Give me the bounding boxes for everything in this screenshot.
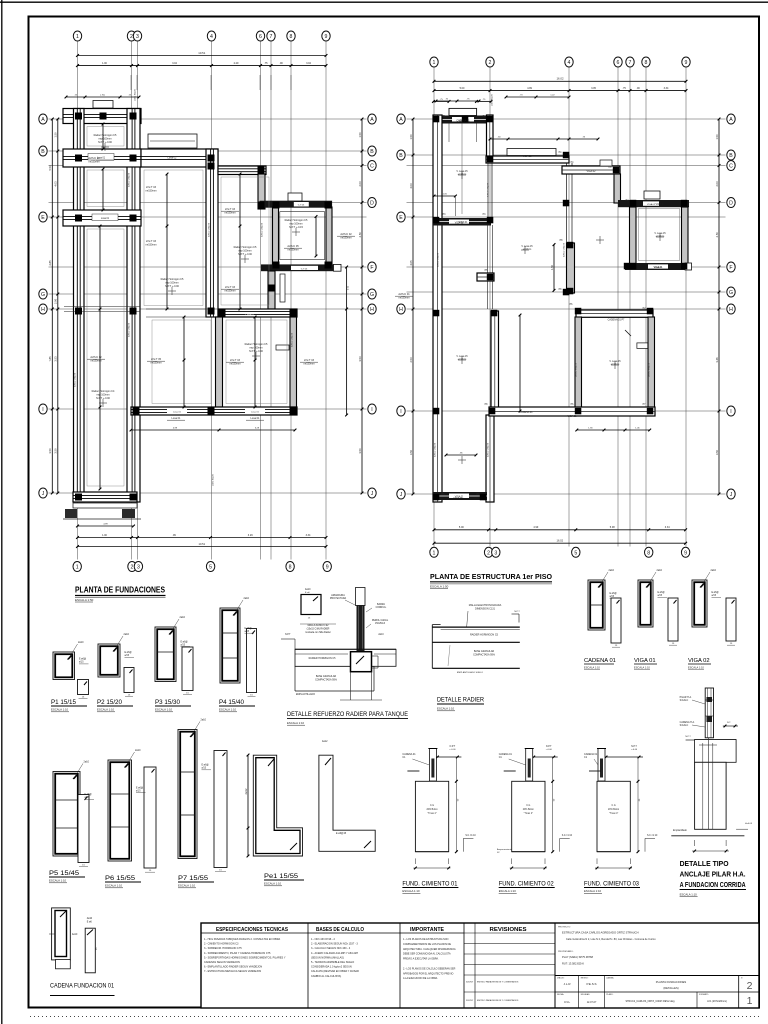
left plan wing J bottom band <box>73 492 137 502</box>
left plan D-room inner rect <box>280 212 325 260</box>
detalle tanque anchor block <box>351 652 372 672</box>
svg-text:3.34: 3.34 <box>665 526 670 529</box>
svg-text:1: 1 <box>433 550 436 556</box>
svg-text:CADENAS SEGUN VANDEJON: CADENAS SEGUN VANDEJON <box>204 961 240 964</box>
svg-text:ne150mm: ne150mm <box>287 248 298 251</box>
svg-text:PREVIO A EJECUTAR LA OBRA.: PREVIO A EJECUTAR LA OBRA. <box>403 958 439 961</box>
left plan extra leader marks top <box>130 75 132 90</box>
svg-text:4.- ACERO CALIDAD A44-28H Y A6: 4.- ACERO CALIDAD A44-28H Y A63-42H <box>311 952 358 955</box>
left plan dim chain below I band <box>131 429 295 431</box>
svg-text:a/15: a/15 <box>658 595 663 597</box>
svg-text:S.C.=1:10: S.C.=1:10 <box>562 835 573 837</box>
left plan F-H connector wall <box>268 271 275 309</box>
svg-text:a/15: a/15 <box>245 631 250 633</box>
svg-text:ESCALA 1:10: ESCALA 1:10 <box>634 666 650 670</box>
svg-text:N.P.T: N.P.T <box>514 611 520 613</box>
svg-text:ESCALA 1:10: ESCALA 1:10 <box>49 879 67 883</box>
Pe1 dim marks <box>247 755 249 856</box>
right plan left wall strip <box>433 115 442 502</box>
svg-text:1.50: 1.50 <box>409 134 413 140</box>
left plan H band <box>218 309 297 317</box>
left plan NPT cross markers <box>101 146 109 148</box>
svg-text:DETALLE REFUERZO RADIER PARA T: DETALLE REFUERZO RADIER PARA TANQUE <box>287 711 408 718</box>
svg-text:DIMENSION C131: DIMENSION C131 <box>475 608 496 611</box>
right plan wing internal dim <box>434 195 455 197</box>
title block bottom rows <box>555 975 759 977</box>
svg-text:APROBADOS POR EL ARQUITECTO PR: APROBADOS POR EL ARQUITECTO PREVIO <box>403 972 453 975</box>
svg-text:PROYECTO:: PROYECTO: <box>558 927 571 929</box>
detail P2 15/20 <box>98 644 120 677</box>
svg-text:2: 2 <box>489 60 492 66</box>
svg-text:3: 3 <box>494 550 497 556</box>
left plan wing B/C band <box>63 149 141 167</box>
svg-text:.75: .75 <box>264 62 268 65</box>
svg-text:VIGA 02: VIGA 02 <box>656 203 666 206</box>
svg-text:2ø10: 2ø10 <box>84 761 90 764</box>
svg-text:N.P.T +-0.00: N.P.T +-0.00 <box>249 350 263 353</box>
svg-text:9: 9 <box>326 565 329 571</box>
svg-text:5xMc2 o8@20: 5xMc2 o8@20 <box>435 442 437 457</box>
svg-text:1: 1 <box>76 565 79 571</box>
detalle anclaje baseline <box>671 835 744 837</box>
svg-text:2ø10: 2ø10 <box>201 719 207 722</box>
svg-text:e=10cm: e=10cm <box>523 248 532 251</box>
svg-text:ne150mm: ne150mm <box>88 160 99 163</box>
svg-text:E ø6@: E ø6@ <box>79 659 87 661</box>
right plan grid horizontal lines <box>407 118 726 120</box>
svg-text:2.50: 2.50 <box>358 232 362 238</box>
detail FUND. CIMIENTO 02 <box>531 756 558 758</box>
svg-text:LAMINA:: LAMINA: <box>606 977 614 980</box>
svg-text:5.08: 5.08 <box>610 526 615 529</box>
svg-text:I: I <box>400 409 401 415</box>
right plan grid4 wall thick lower <box>567 243 575 293</box>
svg-text:C: C <box>729 164 733 170</box>
svg-text:P5 15/45: P5 15/45 <box>49 870 79 877</box>
svg-text:BASES DE CALCULO: BASES DE CALCULO <box>316 927 364 933</box>
svg-text:3.- CALCULO SEGUN NCh 430 - 4: 3.- CALCULO SEGUN NCh 430 - 4 <box>311 947 351 950</box>
svg-text:e=10cm: e=10cm <box>611 363 620 366</box>
svg-text:5xMc2 o8@20: 5xMc2 o8@20 <box>75 372 77 387</box>
svg-text:ESCALA 1:10: ESCALA 1:10 <box>51 708 69 712</box>
right plan small rect above C band <box>600 160 612 166</box>
svg-text:VIGA 01: VIGA 01 <box>634 658 656 664</box>
right plan wing right wall H-I <box>491 311 499 414</box>
svg-text:a/15: a/15 <box>712 595 717 597</box>
right plan B bridge band <box>486 156 569 163</box>
svg-text:ESCALA 1:10: ESCALA 1:10 <box>287 721 305 725</box>
svg-text:3: 3 <box>136 34 139 40</box>
left plan grid horizontal lines <box>49 118 367 120</box>
svg-text:N.P.T +-0.00: N.P.T +-0.00 <box>98 141 112 144</box>
svg-text:9: 9 <box>684 550 687 556</box>
svg-text:Calle Golondrina N 2, Lote N 2: Calle Golondrina N 2, Lote N 2, Renda Pc… <box>566 938 656 941</box>
svg-text:31/07/07: 31/07/07 <box>466 1000 473 1002</box>
svg-text:1.50: 1.50 <box>715 134 719 140</box>
svg-text:3.53: 3.53 <box>358 356 362 362</box>
title block header dividers <box>201 932 464 934</box>
detail P6 15/55 <box>108 760 132 861</box>
svg-text:3.34: 3.34 <box>306 534 311 537</box>
left plan wing internal chain <box>99 226 101 489</box>
detail VIGA 02 <box>692 580 707 627</box>
svg-text:DEBE SER COMUNICADA AL CALCULI: DEBE SER COMUNICADA AL CALCULISTA <box>403 953 451 956</box>
svg-text:P7 15/55: P7 15/55 <box>178 875 208 882</box>
left plan grid bubbles bottom <box>73 562 81 572</box>
svg-text:E ø6@: E ø6@ <box>658 592 666 594</box>
svg-text:1.00: 1.00 <box>102 62 107 65</box>
svg-text:2xMc 8@20: 2xMc 8@20 <box>492 93 494 105</box>
right plan porch rect above A band <box>449 108 477 115</box>
svg-text:ESCALA 1:10: ESCALA 1:10 <box>178 884 196 888</box>
svg-text:Losa 01: Losa 01 <box>172 417 182 420</box>
detail P5 15/45 <box>53 772 80 857</box>
svg-text:B: B <box>370 149 374 155</box>
svg-text:PLANTA FUNDACIONES: PLANTA FUNDACIONES <box>656 980 687 984</box>
svg-text:N.T.: N.T. <box>727 722 731 724</box>
left plan wing band text boxes <box>88 154 114 161</box>
svg-text:PLANTA DE FUNDACIONES: PLANTA DE FUNDACIONES <box>75 586 165 595</box>
svg-text:7: 7 <box>629 60 632 66</box>
svg-text:G: G <box>370 292 374 298</box>
svg-text:CAMBIO AL CALCULISTA): CAMBIO AL CALCULISTA) <box>311 975 341 978</box>
left plan niche rect <box>276 345 289 350</box>
svg-text:COMPACTADA 95%: COMPACTADA 95% <box>473 653 496 656</box>
svg-text:5.00: 5.00 <box>459 526 464 529</box>
svg-text:S.C.=1:10: S.C.=1:10 <box>647 835 658 837</box>
svg-text:ne150mm: ne150mm <box>398 296 409 299</box>
svg-text:+-0.00: +-0.00 <box>546 749 553 751</box>
right plan C-D corner wall <box>614 174 621 203</box>
svg-text:Losa 01: Losa 01 <box>101 218 110 220</box>
svg-text:E ø6@: E ø6@ <box>136 787 144 789</box>
svg-text:A=1 (297x420mm): A=1 (297x420mm) <box>707 1000 727 1003</box>
svg-text:J: J <box>371 491 374 497</box>
svg-text:ARQUITECTURA. CUALQUIER DISCRE: ARQUITECTURA. CUALQUIER DISCREPANCIA <box>403 948 456 951</box>
right plan right room left wall <box>630 207 637 268</box>
right plan A top band <box>433 116 491 124</box>
svg-text:1.50: 1.50 <box>550 264 554 270</box>
right plan niche on right wall <box>637 343 648 349</box>
svg-text:Pe1 15/55: Pe1 15/55 <box>264 873 298 880</box>
svg-text:5: 5 <box>574 550 577 556</box>
svg-text:Losa 01: Losa 01 <box>251 412 260 414</box>
svg-text:P1 15/15: P1 15/15 <box>51 699 76 706</box>
svg-text:.90: .90 <box>279 62 283 65</box>
left plan lower-left room divider (grid4 ext) <box>216 317 223 407</box>
detalle tanque anchor bar <box>356 588 366 606</box>
svg-text:2.- LOS PLANOS DE CALCULO DEBE: 2.- LOS PLANOS DE CALCULO DEBERAN SER <box>403 967 456 970</box>
svg-text:PROYECTADA: PROYECTADA <box>330 597 347 600</box>
right plan F band <box>625 263 692 270</box>
svg-text:5xMc2 o8@20: 5xMc2 o8@20 <box>209 222 211 237</box>
left plan D-room right wall <box>326 207 332 268</box>
svg-text:P3 15/30: P3 15/30 <box>155 699 180 706</box>
svg-text:+-0.00: +-0.00 <box>631 749 638 751</box>
svg-text:B: B <box>729 153 733 159</box>
svg-text:4ø10: 4ø10 <box>72 934 78 936</box>
svg-text:N.P.T: N.P.T <box>450 746 456 748</box>
svg-text:C: C <box>370 164 374 170</box>
svg-text:7: 7 <box>270 34 273 40</box>
svg-text:2ø10: 2ø10 <box>180 616 186 619</box>
svg-text:2.- ELABORACION SEGUN NCh 1537: 2.- ELABORACION SEGUN NCh 1537 - 3 <box>311 943 358 946</box>
svg-text:2.- CIMIENTO HORMIGON C3: 2.- CIMIENTO HORMIGON C3 <box>204 943 239 946</box>
right plan bottom dimension chains <box>434 529 686 531</box>
detail P7 15/55 <box>178 730 197 859</box>
svg-text:F: F <box>729 265 732 271</box>
left plan internal dim chain room1 <box>166 174 168 309</box>
svg-text:E ø6@: E ø6@ <box>85 794 93 796</box>
svg-text:2: 2 <box>747 980 753 992</box>
svg-text:2: 2 <box>130 34 133 40</box>
svg-text:CORRUG.: CORRUG. <box>376 607 387 609</box>
svg-text:4.03: 4.03 <box>54 181 58 187</box>
svg-text:CADENA FUNDACION 01: CADENA FUNDACION 01 <box>50 983 114 990</box>
left plan B/C bridge band <box>141 149 218 167</box>
svg-text:CALICATA (REVISAR EN OBRA Y AV: CALICATA (REVISAR EN OBRA Y AVISAR <box>311 970 359 973</box>
svg-text:S.C.=1:10: S.C.=1:10 <box>465 835 476 837</box>
svg-text:I: I <box>730 409 731 415</box>
svg-text:FUND. CIMIENTO 02: FUND. CIMIENTO 02 <box>499 881 554 888</box>
svg-text:ESCALA 1:50: ESCALA 1:50 <box>430 584 449 588</box>
svg-text:B: B <box>41 149 45 155</box>
svg-text:VIGA 01: VIGA 01 <box>568 415 578 418</box>
svg-text:N.P.T: N.P.T <box>685 736 691 738</box>
svg-text:2.50: 2.50 <box>715 232 719 238</box>
svg-text:B: B <box>399 153 403 159</box>
svg-text:"Tmax 4": "Tmax 4" <box>524 813 533 815</box>
svg-text:ESCALA 1:10: ESCALA 1:10 <box>264 882 282 886</box>
svg-text:2.03: 2.03 <box>715 181 719 187</box>
svg-text:S/CALC: S/CALC <box>680 699 689 702</box>
svg-text:E ø6@: E ø6@ <box>245 628 253 630</box>
left plan I band <box>131 407 297 415</box>
svg-text:20% Bolon: 20% Bolon <box>523 809 535 811</box>
svg-text:A FUNDACION CORRIDA: A FUNDACION CORRIDA <box>680 882 746 889</box>
svg-text:H: H <box>370 307 374 313</box>
svg-text:5.53: 5.53 <box>48 165 52 171</box>
right plan C band <box>562 166 620 174</box>
svg-text:VIGA 01: VIGA 01 <box>654 266 664 269</box>
svg-text:E ø6: E ø6 <box>305 592 310 594</box>
svg-text:REVISIONES: REVISIONES <box>490 927 528 933</box>
svg-text:A: A <box>399 117 403 123</box>
right plan H-I right vertical <box>648 317 655 414</box>
svg-text:EMITIDO PARA REVISION Y COMENT: EMITIDO PARA REVISION Y COMENTARIOS <box>477 999 519 1002</box>
svg-text:a/15: a/15 <box>125 655 130 657</box>
svg-text:VIGA 02: VIGA 02 <box>647 203 656 206</box>
svg-text:CADENA 01: CADENA 01 <box>456 120 470 123</box>
svg-text:E ø6@: E ø6@ <box>181 641 189 643</box>
svg-text:(DETALLES): (DETALLES) <box>663 986 678 990</box>
svg-text:MALLA ELECTROSOLDADA: MALLA ELECTROSOLDADA <box>469 604 502 607</box>
svg-text:CADENA 01 P7: CADENA 01 P7 <box>608 319 625 322</box>
left plan label underlines <box>96 159 114 161</box>
left plan I band text boxes <box>167 408 187 414</box>
svg-text:1.- HKG PASADAS TABIQUES RASGO: 1.- HKG PASADAS TABIQUES RASGOS 2. CONSU… <box>204 938 281 941</box>
svg-text:7.85: 7.85 <box>48 356 52 362</box>
left plan D-room top band <box>260 201 333 208</box>
svg-text:2ø10: 2ø10 <box>378 634 384 636</box>
svg-text:VIGA 02: VIGA 02 <box>688 658 710 664</box>
left plan C-D corner vertical <box>258 174 265 209</box>
detalle anclaje bottom bracket <box>694 840 696 846</box>
detalle tanque pedestal below <box>350 672 352 700</box>
svg-text:H=0.05: H=0.05 <box>745 823 753 825</box>
svg-text:5.- SOBREPORTADAS HORMIGONES S: 5.- SOBREPORTADAS HORMIGONES SOBRECIMIEN… <box>204 956 286 959</box>
left plan top dimension chains <box>78 55 327 57</box>
svg-text:a/15: a/15 <box>79 662 84 664</box>
svg-text:COMPACTADA 95%: COMPACTADA 95% <box>315 678 338 681</box>
svg-text:E ø6@: E ø6@ <box>125 652 133 654</box>
svg-text:6: 6 <box>617 60 620 66</box>
svg-text:ESCALA 1:50: ESCALA 1:50 <box>75 598 94 602</box>
left plan wing H thin band <box>64 306 140 308</box>
svg-text:J: J <box>42 491 45 497</box>
svg-text:1: 1 <box>433 60 436 66</box>
svg-text:4: 4 <box>568 60 571 66</box>
svg-text:8: 8 <box>647 550 650 556</box>
svg-text:N.P.T: N.P.T <box>546 746 552 748</box>
svg-text:5xMc2 o8@20: 5xMc2 o8@20 <box>129 172 131 187</box>
svg-text:ESCALA 1:10: ESCALA 1:10 <box>688 666 704 670</box>
svg-text:I: I <box>371 407 372 413</box>
svg-text:D: D <box>729 201 733 207</box>
right plan pilar blocks <box>433 116 440 123</box>
left plan wing left foundation strip <box>74 109 85 503</box>
left plan grid bubbles left <box>39 114 47 124</box>
svg-text:9: 9 <box>325 34 328 40</box>
svg-text:DETALLE RADIER: DETALLE RADIER <box>437 697 484 704</box>
svg-text:20% Bolon: 20% Bolon <box>426 809 438 811</box>
svg-text:PERFIL CANAL: PERFIL CANAL <box>372 619 389 622</box>
detalle anclaje pillar column <box>705 688 713 738</box>
svg-text:I: I <box>42 407 43 413</box>
svg-text:2.85: 2.85 <box>48 260 52 266</box>
svg-text:N.P.T: N.P.T <box>285 634 291 636</box>
svg-text:16.02: 16.02 <box>557 77 564 81</box>
svg-text:4.- SOBRECIMIENTO, PILAR Y CAD: 4.- SOBRECIMIENTO, PILAR Y CADENA HORMIG… <box>204 952 271 955</box>
revisiones grid <box>474 923 476 1008</box>
svg-text:6.- EMPLANTILLADO RADIER SEGUN: 6.- EMPLANTILLADO RADIER SEGUN VANDEJON <box>204 966 262 969</box>
svg-text:A: A <box>41 117 45 123</box>
svg-text:Emplantillado: Emplantillado <box>673 829 688 832</box>
left plan wing top small dim chains <box>66 96 139 98</box>
svg-text:150x50x3: 150x50x3 <box>375 623 386 625</box>
svg-text:2.29: 2.29 <box>234 62 239 65</box>
svg-text:VIGA 02: VIGA 02 <box>587 170 597 173</box>
svg-text:C.G: C.G <box>430 805 434 807</box>
svg-text:ESCALA 1:10: ESCALA 1:10 <box>402 889 420 893</box>
svg-text:2ø10: 2ø10 <box>657 569 663 572</box>
svg-text:3.05: 3.05 <box>591 87 596 90</box>
svg-text:2.06: 2.06 <box>54 298 58 304</box>
svg-text:D: D <box>370 201 374 207</box>
svg-text:PROPIETARIO:: PROPIETARIO: <box>558 950 574 953</box>
svg-text:e=10cm: e=10cm <box>458 173 467 176</box>
svg-text:(15x15 C/M) RADIER: (15x15 C/M) RADIER <box>307 627 330 630</box>
svg-text:3.50: 3.50 <box>48 448 52 454</box>
svg-text:P6 15/55: P6 15/55 <box>105 875 135 882</box>
svg-text:a/15: a/15 <box>610 596 615 598</box>
svg-text:3.- SOBRECIM. HORMIGON C75: 3.- SOBRECIM. HORMIGON C75 <box>204 947 242 950</box>
svg-text:J: J <box>400 492 403 498</box>
left plan grid bubbles top <box>73 31 81 41</box>
svg-text:3.04: 3.04 <box>306 62 311 65</box>
svg-text:J: J <box>730 492 733 498</box>
svg-text:F: F <box>370 265 373 271</box>
bottom dotted trim line <box>30 1016 759 1018</box>
left plan bridge lintel <box>148 134 197 148</box>
detalle tanque slab section <box>295 648 396 650</box>
svg-text:9: 9 <box>685 60 688 66</box>
svg-text:+-0.00: +-0.00 <box>449 749 456 751</box>
svg-text:1.50: 1.50 <box>358 132 362 138</box>
svg-text:6: 6 <box>259 34 262 40</box>
svg-text:2ø10: 2ø10 <box>244 597 250 600</box>
svg-text:E ø6@: E ø6@ <box>610 593 618 595</box>
svg-text:ESCALA 1:10: ESCALA 1:10 <box>584 889 602 893</box>
svg-text:DIBUJO:: DIBUJO: <box>557 978 565 980</box>
svg-text:H: H <box>399 307 403 313</box>
svg-text:ESCALAS:: ESCALAS: <box>581 993 591 996</box>
left plan lower-right room right wall <box>290 317 297 407</box>
svg-text:2xMc 8@20: 2xMc 8@20 <box>135 88 137 100</box>
right plan grid bubbles left <box>397 114 405 124</box>
svg-text:EMITIDO PARA REVISION Y COMENT: EMITIDO PARA REVISION Y COMENTARIOS <box>477 981 519 984</box>
right plan H band <box>576 310 653 317</box>
svg-text:3.29: 3.29 <box>248 534 253 537</box>
svg-text:5xMc2 o8@20: 5xMc2 o8@20 <box>129 322 131 337</box>
svg-text:EMPLANTILLADO: EMPLANTILLADO <box>296 693 315 696</box>
svg-text:4.99: 4.99 <box>527 87 532 90</box>
svg-text:CADENA 01: CADENA 01 <box>584 658 616 664</box>
svg-text:ne150mm: ne150mm <box>303 362 314 365</box>
svg-text:G: G <box>729 290 733 296</box>
left plan pilar blocks <box>75 113 82 120</box>
svg-text:montada con Silla Radier: montada con Silla Radier <box>305 631 331 634</box>
left plan grid bubbles right <box>368 114 376 124</box>
svg-text:FUND. CIMIENTO 03: FUND. CIMIENTO 03 <box>584 881 639 888</box>
detail Pe1 15/55 L-shape <box>253 755 302 856</box>
right plan D band <box>618 200 689 207</box>
svg-text:IMPORTANTE: IMPORTANTE <box>410 927 445 933</box>
svg-text:4ø12: 4ø12 <box>322 740 328 743</box>
svg-text:8: 8 <box>290 34 293 40</box>
svg-text:1: 1 <box>76 34 79 40</box>
left plan left dimension chain outer <box>51 119 53 493</box>
svg-text:ESPECIFICACIONES TECNICAS: ESPECIFICACIONES TECNICAS <box>216 927 289 933</box>
svg-text:5: 5 <box>209 565 212 571</box>
svg-text:Losa 01: Losa 01 <box>173 412 182 414</box>
svg-text:4.03: 4.03 <box>409 183 413 189</box>
svg-text:RADIER HORMIGON C5: RADIER HORMIGON C5 <box>470 634 499 637</box>
svg-text:4.99: 4.99 <box>533 526 538 529</box>
detalle anclaje ground lines <box>686 739 700 741</box>
svg-text:RADIER HORMIGON C5: RADIER HORMIGON C5 <box>309 657 337 660</box>
svg-text:ne150mm: ne150mm <box>150 361 161 364</box>
svg-text:10.51: 10.51 <box>198 51 205 55</box>
svg-text:ESCALA 1:10: ESCALA 1:10 <box>680 893 698 897</box>
svg-text:2ø10: 2ø10 <box>124 633 130 636</box>
svg-text:E ø6@: E ø6@ <box>712 592 720 594</box>
svg-text:3: 3 <box>137 565 140 571</box>
right plan right dimension chain <box>718 119 720 494</box>
svg-text:C.G: C.G <box>612 805 616 807</box>
right plan wing right wall I-J <box>486 415 494 502</box>
detail CADENA FUNDACION 01 section <box>52 908 71 960</box>
